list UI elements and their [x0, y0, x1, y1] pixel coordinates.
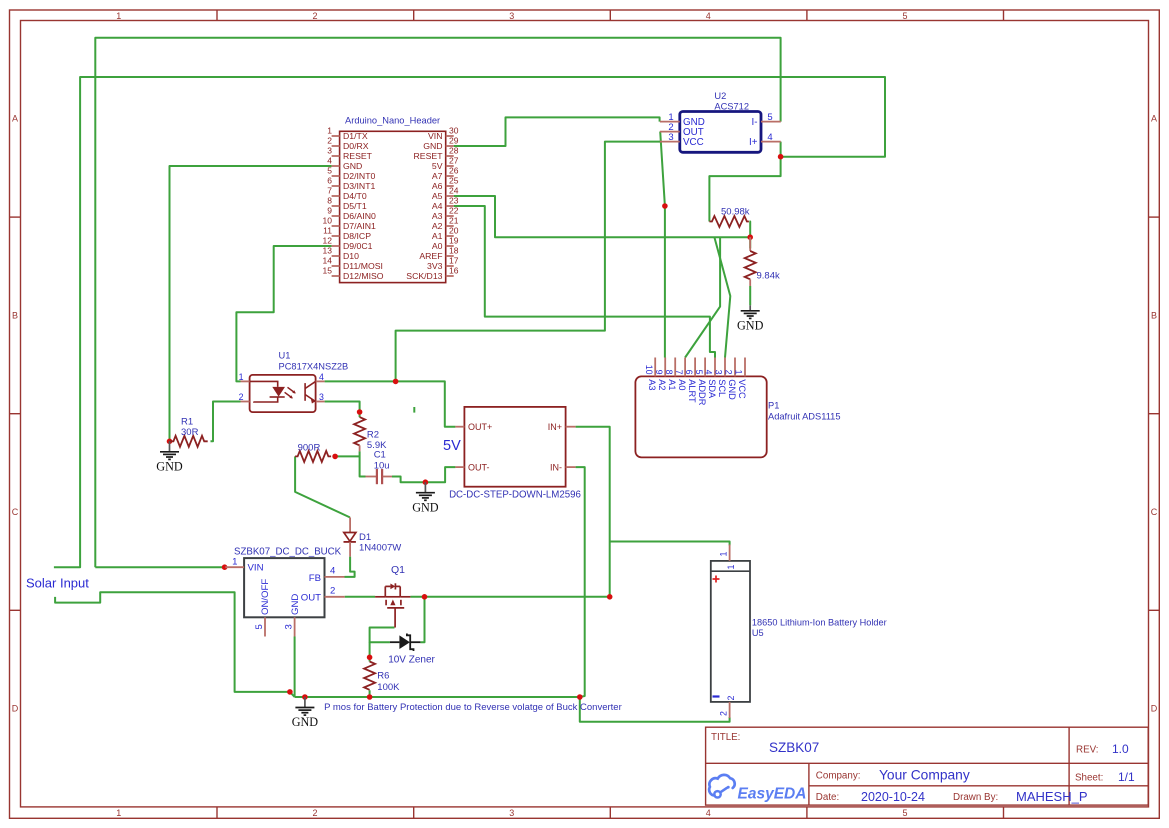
svg-text:11: 11 [323, 226, 332, 236]
junction at R2 top [357, 409, 363, 415]
svg-text:Arduino_Nano_Header: Arduino_Nano_Header [345, 116, 440, 126]
svg-text:26: 26 [449, 166, 459, 176]
svg-text:900R: 900R [298, 443, 321, 454]
svg-text:GND: GND [727, 379, 737, 400]
svg-text:2: 2 [726, 696, 736, 701]
svg-text:D3/INT1: D3/INT1 [343, 181, 376, 191]
svg-text:16: 16 [449, 266, 459, 276]
P-MOSFET Q1 [375, 564, 410, 628]
svg-text:SCL: SCL [717, 379, 727, 397]
junction at U1 pin4 5V branch [393, 379, 399, 385]
svg-text:U5: U5 [752, 628, 764, 638]
wire battery positive feed [610, 542, 730, 546]
svg-text:5: 5 [254, 624, 265, 629]
wire SZBK07 OUT to Q1 source [345, 596, 375, 598]
svg-text:D1/TX: D1/TX [343, 131, 368, 141]
svg-text:D11/MOSI: D11/MOSI [343, 261, 383, 271]
svg-text:R2: R2 [367, 430, 379, 441]
svg-text:3V3: 3V3 [427, 261, 443, 271]
svg-text:3: 3 [327, 146, 332, 156]
junction at drain rail IN+ [607, 594, 613, 600]
junction at 900R right [332, 454, 338, 460]
svg-text:VIN: VIN [248, 563, 264, 574]
svg-text:3: 3 [319, 392, 324, 402]
svg-text:I-: I- [752, 117, 758, 128]
svg-text:18: 18 [449, 246, 459, 256]
svg-text:3: 3 [509, 11, 514, 21]
svg-text:20: 20 [449, 226, 459, 236]
diode D1 1N4007W [344, 517, 402, 556]
svg-text:GND: GND [343, 161, 362, 171]
svg-text:10V Zener: 10V Zener [388, 655, 435, 666]
wire U2 OUT to ADS1115 A2 pin9 [660, 132, 665, 358]
svg-text:A7: A7 [432, 171, 443, 181]
svg-text:2: 2 [724, 370, 734, 375]
buck module LM2596 [449, 407, 581, 501]
svg-text:D: D [12, 704, 19, 714]
svg-text:C: C [1151, 507, 1158, 517]
svg-text:1: 1 [718, 552, 728, 557]
svg-text:R6: R6 [377, 671, 389, 682]
wire bottom rail step [290, 692, 295, 697]
wire Q1 gate to zener left [370, 628, 395, 643]
junction at zener to drain rail [422, 594, 428, 600]
title block [706, 727, 1149, 805]
svg-text:D5/T1: D5/T1 [343, 201, 367, 211]
svg-text:A3: A3 [432, 211, 443, 221]
wire C1 right to GND tap to LM2596 OUT- [392, 467, 455, 482]
svg-text:4: 4 [704, 370, 714, 375]
svg-text:10u: 10u [374, 460, 390, 471]
svg-text:SZBK07_DC_DC_BUCK: SZBK07_DC_DC_BUCK [234, 547, 342, 558]
svg-text:U1: U1 [279, 351, 291, 361]
svg-text:3: 3 [509, 808, 514, 818]
svg-text:Q1: Q1 [391, 564, 405, 576]
svg-text:VIN: VIN [428, 131, 442, 141]
svg-text:5: 5 [902, 11, 907, 21]
svg-text:C1: C1 [374, 450, 386, 461]
junction at zener R6 [367, 655, 373, 661]
svg-text:U2: U2 [714, 91, 726, 101]
svg-text:D8/ICP: D8/ICP [343, 231, 371, 241]
wire Arduino pin12 D9 to U1 pin1 [236, 246, 331, 381]
svg-text:P1: P1 [768, 401, 779, 411]
junction at bottom rail ground [302, 694, 308, 700]
svg-text:2: 2 [239, 392, 244, 402]
svg-text:18650 Lithium-Ion Battery Hold: 18650 Lithium-Ion Battery Holder [752, 618, 887, 628]
wire 9.84k bottom to GND flag [749, 286, 751, 305]
svg-text:D10: D10 [343, 251, 359, 261]
svg-text:2: 2 [330, 585, 335, 596]
svg-text:27: 27 [449, 156, 459, 166]
svg-text:A1: A1 [432, 231, 443, 241]
junction at R6 bottom [367, 694, 373, 700]
svg-text:EasyEDA: EasyEDA [738, 786, 807, 803]
ground flag at bottom rail [292, 697, 319, 729]
svg-text:R1: R1 [181, 416, 193, 427]
svg-text:GND: GND [292, 715, 319, 729]
svg-text:Drawn By:: Drawn By: [953, 792, 998, 803]
svg-text:28: 28 [449, 146, 459, 156]
svg-text:3: 3 [668, 132, 673, 143]
svg-text:A: A [12, 114, 18, 124]
svg-text:SDA: SDA [707, 379, 717, 399]
svg-text:C: C [12, 507, 19, 517]
net probe mark [413, 407, 415, 413]
svg-text:29: 29 [449, 136, 459, 146]
svg-text:FB: FB [309, 573, 321, 584]
svg-text:A0: A0 [677, 379, 687, 390]
svg-text:1N4007W: 1N4007W [359, 543, 401, 554]
junction at bottom rail left [287, 689, 293, 695]
wire zener right up to drain rail [420, 597, 424, 642]
wire SZBK07 pin3 GND down [294, 637, 296, 698]
svg-text:7: 7 [674, 370, 684, 375]
svg-text:2: 2 [312, 11, 317, 21]
svg-text:RESET: RESET [343, 151, 373, 161]
svg-text:SZBK07: SZBK07 [769, 740, 819, 755]
zener diode 10V [388, 634, 435, 666]
current sensor U2 ACS712 [660, 91, 781, 152]
wire R6 bottom to rail [369, 690, 371, 697]
svg-text:9: 9 [327, 206, 332, 216]
svg-text:2: 2 [718, 711, 728, 716]
svg-text:OUT+: OUT+ [468, 422, 492, 432]
svg-text:1/1: 1/1 [1118, 770, 1135, 784]
svg-text:8: 8 [664, 370, 674, 375]
svg-text:GND: GND [156, 460, 183, 474]
svg-text:B: B [12, 310, 18, 320]
wire solar input upper to SZBK07 VIN [224, 566, 227, 568]
wire LM2596 IN- down to bottom rail [576, 467, 585, 697]
svg-text:GND: GND [423, 141, 442, 151]
svg-text:50.98k: 50.98k [721, 206, 750, 217]
svg-text:9.84k: 9.84k [757, 271, 780, 282]
wire U2 I+ junction down-left to 50.98k [709, 142, 780, 222]
svg-text:1: 1 [232, 557, 237, 568]
svg-text:D1: D1 [359, 532, 371, 543]
svg-text:Company:: Company: [816, 770, 861, 781]
svg-text:A4: A4 [432, 201, 443, 211]
svg-text:PC817X4NSZ2B: PC817X4NSZ2B [279, 362, 349, 372]
wire U1 pin3 to R2 [325, 402, 360, 418]
svg-text:RESET: RESET [414, 151, 444, 161]
svg-text:ON/OFF: ON/OFF [260, 579, 271, 615]
wire Arduino pin29 GND to U2 pin1 [454, 117, 660, 146]
wire divider to 9.84k [749, 237, 751, 248]
junction at voltage divider [747, 234, 753, 240]
svg-text:D7/AIN1: D7/AIN1 [343, 221, 376, 231]
svg-text:1: 1 [327, 126, 332, 136]
svg-text:7: 7 [327, 186, 332, 196]
svg-text:4: 4 [706, 11, 711, 21]
svg-text:A: A [1151, 114, 1157, 124]
svg-text:6: 6 [684, 370, 694, 375]
svg-text:D0/RX: D0/RX [343, 141, 369, 151]
svg-text:30: 30 [449, 126, 459, 136]
junction at U2 I+ [778, 154, 784, 160]
svg-text:D9/0C1: D9/0C1 [343, 241, 373, 251]
wire U2 VCC to 5V net [396, 142, 661, 382]
junction at bottom rail IN- [577, 694, 583, 700]
svg-text:A3: A3 [647, 379, 657, 390]
ground flag at C1/OUT- [412, 482, 439, 514]
svg-text:Your Company: Your Company [879, 767, 970, 782]
svg-text:1: 1 [116, 11, 121, 21]
svg-text:19: 19 [449, 236, 459, 246]
wire divider tap to ADS1115 SCL pin3 [714, 237, 730, 357]
svg-text:1: 1 [116, 808, 121, 818]
wire solar input lower to bottom rail [55, 592, 290, 692]
wire R1 to U1 pin2 [211, 402, 241, 442]
ground flag at 9.84k [737, 305, 764, 332]
svg-text:TITLE:: TITLE: [711, 732, 740, 743]
svg-text:10: 10 [323, 216, 333, 226]
wire LM2596 IN+ down to drain rail [576, 427, 610, 597]
svg-text:VCC: VCC [737, 379, 747, 399]
svg-text:30R: 30R [181, 427, 199, 438]
wire Arduino pin4 GND down to R1 [170, 166, 332, 441]
svg-text:4: 4 [319, 372, 324, 382]
svg-text:5V: 5V [432, 161, 443, 171]
svg-text:D12/MISO: D12/MISO [343, 271, 384, 281]
wire 50.98k right to divider dot [748, 222, 751, 238]
svg-text:2: 2 [327, 136, 332, 146]
svg-text:A0: A0 [432, 241, 443, 251]
capacitor C1 10u [366, 450, 393, 485]
svg-text:25: 25 [449, 176, 459, 186]
svg-text:OUT: OUT [301, 593, 321, 604]
wire R2 bottom through C1 tee [360, 451, 366, 476]
svg-text:DC-DC-STEP-DOWN-LM2596: DC-DC-STEP-DOWN-LM2596 [449, 490, 581, 501]
svg-text:A2: A2 [432, 221, 443, 231]
svg-text:2020-10-24: 2020-10-24 [861, 790, 925, 804]
svg-text:3: 3 [714, 370, 724, 375]
svg-text:4: 4 [327, 156, 332, 166]
junction at R1 ground [167, 439, 173, 445]
svg-text:4: 4 [767, 132, 772, 143]
optocoupler U1 PC817X4NSZ2B [239, 351, 349, 413]
svg-text:REV:: REV: [1076, 745, 1099, 756]
ground flag at R1 [156, 441, 183, 473]
svg-text:22: 22 [449, 206, 459, 216]
svg-text:OUT-: OUT- [468, 462, 490, 472]
svg-text:Solar Input: Solar Input [26, 576, 89, 591]
resistor 50.98k [709, 206, 749, 227]
svg-text:Date:: Date: [816, 792, 839, 803]
svg-text:ADDR: ADDR [697, 379, 707, 405]
svg-text:5: 5 [902, 808, 907, 818]
svg-text:P mos for Battery Protection d: P mos for Battery Protection due to Reve… [324, 702, 622, 713]
svg-text:GND: GND [412, 500, 439, 514]
wire U2 pin5 I- to top rail to solar VIN column [95, 38, 780, 568]
svg-text:1.0: 1.0 [1112, 742, 1129, 756]
svg-text:21: 21 [449, 216, 459, 226]
svg-text:8: 8 [327, 196, 332, 206]
resistor 9.84k [745, 237, 780, 286]
wire 900R to R2 tee [335, 455, 360, 457]
wire U1 pin4 to LM2596 OUT+ [325, 381, 456, 426]
wire divider tap to ADS1115 A0 pin7 [685, 237, 720, 357]
svg-text:1: 1 [239, 372, 244, 382]
Arduino_Nano_Header U4 [323, 116, 459, 283]
svg-text:A5: A5 [432, 191, 443, 201]
svg-text:14: 14 [323, 256, 333, 266]
resistor R6 100K [364, 662, 400, 694]
svg-text:D2/INT0: D2/INT0 [343, 171, 376, 181]
battery holder U5 18650 [711, 545, 887, 719]
svg-text:B: B [1151, 310, 1157, 320]
svg-text:2: 2 [312, 808, 317, 818]
svg-text:A2: A2 [657, 379, 667, 390]
svg-text:AREF: AREF [419, 251, 442, 261]
svg-text:10: 10 [644, 365, 654, 375]
svg-text:IN+: IN+ [548, 422, 562, 432]
svg-text:Sheet:: Sheet: [1075, 773, 1103, 784]
wire solar open stub [54, 77, 885, 567]
svg-text:12: 12 [323, 236, 333, 246]
svg-text:A1: A1 [667, 379, 677, 390]
svg-text:ALRT: ALRT [687, 379, 697, 403]
svg-text:ACS712: ACS712 [714, 102, 749, 112]
wire Q1 drain rail to IN+ junction [410, 596, 609, 598]
svg-text:5V: 5V [443, 438, 461, 454]
svg-text:9: 9 [654, 370, 664, 375]
wire A5 net from Arduino pin24 to divider dot [454, 196, 751, 237]
svg-text:15: 15 [323, 266, 333, 276]
wire A4 net from Arduino pin23 to ADS1115 SDA pin4 [454, 206, 715, 358]
wire solar plus rail to VIN [95, 566, 224, 568]
resistor R1 30R [170, 416, 208, 447]
resistor R2 5.9K [354, 417, 387, 451]
svg-text:100K: 100K [377, 682, 400, 693]
wire zener left down to R6 [369, 642, 371, 661]
wire bottom rail to battery pin2 [580, 697, 730, 722]
svg-text:6: 6 [327, 176, 332, 186]
junction at U2 OUT diagonal [662, 203, 668, 209]
svg-text:VCC: VCC [683, 137, 704, 148]
svg-text:4: 4 [330, 566, 336, 577]
svg-text:D4/T0: D4/T0 [343, 191, 367, 201]
wire 900R left down to D1 anode [295, 456, 350, 517]
svg-text:3: 3 [284, 624, 295, 629]
svg-text:5: 5 [327, 166, 332, 176]
svg-text:4: 4 [706, 808, 711, 818]
svg-text:1: 1 [726, 565, 736, 570]
svg-text:A6: A6 [432, 181, 443, 191]
svg-text:I+: I+ [749, 137, 758, 148]
svg-text:GND: GND [290, 594, 301, 615]
ADC module P1 Adafruit ADS1115 [635, 358, 840, 458]
wire D1 cathode to FB [345, 557, 355, 577]
svg-text:23: 23 [449, 196, 459, 206]
buck converter SZBK07_DC_DC_BUCK [225, 547, 344, 637]
resistor 900R [295, 443, 331, 462]
svg-text:5: 5 [767, 112, 772, 123]
svg-text:GND: GND [737, 319, 764, 333]
wire bottom rail [295, 696, 580, 698]
svg-text:D6/AIN0: D6/AIN0 [343, 211, 376, 221]
svg-text:Adafruit ADS1115: Adafruit ADS1115 [768, 412, 841, 422]
svg-text:MAHESH_P: MAHESH_P [1016, 789, 1088, 804]
junction at VIN pin [222, 564, 228, 570]
svg-text:IN-: IN- [550, 462, 562, 472]
svg-text:13: 13 [323, 246, 333, 256]
EasyEDA logo [709, 775, 806, 803]
svg-text:5: 5 [694, 370, 704, 375]
svg-text:24: 24 [449, 186, 459, 196]
svg-text:1: 1 [734, 370, 744, 375]
svg-text:D: D [1151, 704, 1158, 714]
svg-text:17: 17 [449, 256, 459, 266]
junction at OUT- ground tap [423, 479, 429, 485]
svg-text:SCK/D13: SCK/D13 [406, 271, 442, 281]
